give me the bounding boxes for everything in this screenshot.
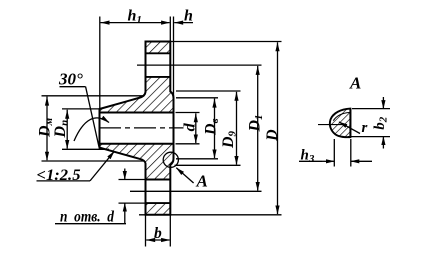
bolt hole top (white) <box>144 53 170 77</box>
bolt hole bottom edges <box>146 179 171 181</box>
detail centerline <box>318 124 344 126</box>
svg-text:D9: D9 <box>220 130 239 149</box>
dimension b2 bottom segment <box>382 137 384 149</box>
dimension b2 top segment <box>382 97 384 109</box>
bolt hole dimension line top segment <box>124 169 126 180</box>
extension line D1 bottom (bolt hole axis) <box>130 190 262 192</box>
bolt hole top edges <box>146 52 171 54</box>
bolt hole dimension line bottom segment <box>124 203 126 224</box>
extension lines bolt hole dia <box>119 179 145 181</box>
extension lines h3 <box>333 139 335 167</box>
dimension h3 right arrow <box>351 160 372 162</box>
svg-text:h3: h3 <box>301 147 315 165</box>
dimension d <box>195 113 197 143</box>
svg-text:b: b <box>154 225 162 242</box>
flange face line over bore <box>173 98 175 159</box>
bore (white) <box>98 113 173 144</box>
dimension Dm <box>46 97 48 161</box>
svg-text:Dв: Dв <box>202 118 221 136</box>
dimension D1 <box>257 66 259 191</box>
svg-text:Dп: Dп <box>52 120 70 139</box>
taper leader <box>90 151 114 181</box>
dimension h3 line <box>299 160 322 162</box>
leader A <box>176 168 193 183</box>
dimension h1 <box>101 22 170 24</box>
detail root line <box>349 109 351 138</box>
dimension Dv <box>214 99 216 158</box>
dimension b <box>146 239 169 241</box>
dimension D <box>277 42 279 214</box>
extension line neck end (for h1) <box>99 17 101 151</box>
r leader <box>339 122 360 134</box>
extension lines D9 <box>176 90 241 92</box>
svg-text:A: A <box>196 172 208 191</box>
extension line D bottom (plate bottom edge extended) <box>139 214 282 216</box>
dimension h <box>174 22 193 24</box>
extension line D top (plate top edge extended) <box>170 41 281 43</box>
svg-text:h: h <box>184 8 193 25</box>
30deg angle arc <box>74 118 109 141</box>
extension lines Dp <box>62 108 99 110</box>
svg-text:r: r <box>362 120 368 136</box>
bore top edge <box>100 112 174 114</box>
svg-text:D1: D1 <box>246 114 264 132</box>
svg-text:b2: b2 <box>372 116 390 130</box>
flange body silhouette (hatched section) <box>100 42 174 215</box>
svg-text:30°: 30° <box>58 70 83 89</box>
extension line sealing face (for h) <box>173 17 175 99</box>
extension line plate back face (for h1/h) <box>169 17 171 42</box>
taper underline <box>37 180 91 182</box>
detail bead body <box>330 109 351 138</box>
extension lines d <box>176 112 200 114</box>
dimension D9 <box>236 92 238 165</box>
svg-text:n отв. d: n отв. d <box>60 209 115 226</box>
extension line D1 top (bolt hole axis) <box>137 64 262 66</box>
n otv. d underline <box>55 223 126 225</box>
extension lines Dv <box>176 97 218 99</box>
svg-text:A: A <box>349 74 361 93</box>
30deg leader line <box>86 87 99 147</box>
detail circle <box>163 152 178 167</box>
svg-text:D: D <box>264 129 281 142</box>
dimension h3 left arrow <box>322 160 334 162</box>
dimension Dp <box>66 110 68 149</box>
svg-text:h1: h1 <box>128 8 142 27</box>
extension lines b <box>145 216 147 247</box>
bolt hole bottom (white) <box>144 180 170 204</box>
flange outline <box>100 42 174 215</box>
bore bottom edge <box>100 143 174 145</box>
extension lines b2 <box>352 108 390 110</box>
svg-text:d: d <box>181 122 198 131</box>
detail bead inner curve <box>333 113 349 121</box>
centerline axis <box>99 127 184 129</box>
extension lines Dm <box>42 95 145 97</box>
30deg underline <box>60 86 86 88</box>
